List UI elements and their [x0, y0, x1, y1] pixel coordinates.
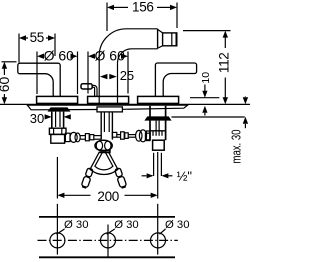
- dimension 60 (left, vertical): [0, 62, 17, 104]
- svg-text:156: 156: [132, 0, 154, 14]
- plan view: right hole: [151, 204, 190, 255]
- pop-up rod left: [81, 168, 94, 189]
- deck slab: [27, 104, 188, 109]
- svg-text:60: 60: [0, 77, 12, 93]
- plan view: counter strip top edge: [39, 216, 175, 218]
- right shank below counter: [145, 106, 165, 150]
- dimension max. 30 (countertop thickness): [172, 97, 249, 164]
- svg-text:Ø 30: Ø 30: [64, 219, 89, 231]
- svg-text:200: 200: [97, 189, 119, 204]
- pop-up lift knob and rod: [81, 84, 97, 97]
- svg-text:112: 112: [216, 52, 231, 73]
- aerator cylinder: [163, 33, 177, 46]
- dimension 1/2 inch: [142, 153, 193, 184]
- plan view: left hole: [50, 204, 89, 255]
- svg-text:Ø 60: Ø 60: [44, 48, 75, 64]
- pop-up waste ball joint: [95, 140, 112, 151]
- svg-text:10: 10: [200, 72, 212, 84]
- svg-text:25: 25: [120, 68, 134, 83]
- right supply hose: [117, 130, 150, 142]
- center flange under deck: [97, 107, 122, 112]
- svg-text:½": ½": [177, 169, 193, 184]
- dimension 55: [19, 30, 55, 63]
- svg-text:55: 55: [30, 30, 44, 45]
- spout (riser tube, curved over to spout end): [99, 29, 157, 97]
- dimension 200: [57, 152, 157, 204]
- right handle lever: [155, 63, 196, 97]
- svg-text:30: 30: [30, 111, 44, 126]
- pop-up rod right: [114, 168, 127, 189]
- dimension 112 (vertical right): [183, 31, 231, 105]
- left handle lever: [18, 63, 60, 96]
- dimension 30 (left shank): [30, 111, 71, 126]
- right shank washer (black): [144, 116, 171, 120]
- left shank: [49, 112, 66, 144]
- right escutcheon: [138, 96, 179, 103]
- plan view: horizontal centerline: [38, 239, 178, 241]
- dimension 156: [107, 0, 177, 31]
- left supply hose: [65, 132, 101, 142]
- pop-up waste yoke: [90, 150, 118, 174]
- dimension Ø60 center: [88, 48, 128, 94]
- left escutcheon: [37, 96, 78, 103]
- center escutcheon: [88, 96, 129, 103]
- left shank washer (black): [48, 107, 71, 111]
- dimension 25: [100, 68, 134, 83]
- svg-text:max. 30: max. 30: [230, 129, 244, 163]
- center tube below deck: [101, 112, 117, 140]
- svg-text:Ø 30: Ø 30: [165, 219, 190, 231]
- aerator taper: [158, 30, 163, 48]
- svg-text:Ø 30: Ø 30: [114, 219, 139, 231]
- plan view: center hole: [101, 219, 139, 258]
- countertop line: [0, 103, 250, 105]
- plan view: counter strip bottom edge: [39, 256, 175, 258]
- dimension Ø60 left: [37, 48, 78, 94]
- dimension 10 (escutcheon height): [190, 72, 219, 116]
